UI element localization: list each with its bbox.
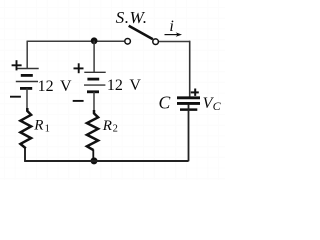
wire bottom horizontal (24, 160, 188, 162)
battery B2 plate short thick (87, 78, 99, 81)
svg-text:C: C (213, 99, 222, 113)
label - of B2 (73, 100, 84, 102)
wire battery B1 to R1 (26, 88, 28, 111)
svg-text:12: 12 (38, 78, 54, 95)
capacitor C top plate (177, 96, 200, 99)
battery B1 plate short thick 2 (20, 87, 32, 90)
wire R2 to bottom node (92, 150, 94, 161)
svg-text:1: 1 (45, 123, 50, 134)
battery B2 12V plate long (84, 71, 105, 73)
wire left vertical (top) (26, 41, 28, 69)
node junction dot top (91, 37, 98, 44)
svg-text:V: V (60, 78, 72, 95)
resistor R2 zigzag (87, 110, 98, 150)
wire right vertical (top) (189, 41, 191, 97)
wire capacitor to bottom (188, 105, 190, 162)
svg-text:C: C (159, 92, 171, 112)
wire middle vertical (top) (93, 41, 95, 72)
switch S.W. right terminal (153, 39, 159, 45)
label + of B1 (12, 60, 22, 70)
svg-text:R: R (102, 118, 112, 134)
svg-text:V: V (129, 77, 141, 94)
faint grid (0, 0, 225, 180)
node junction dot bottom (91, 157, 98, 164)
svg-text:12: 12 (107, 77, 123, 94)
label + of C (191, 89, 199, 96)
label + of B2 (74, 63, 84, 73)
battery B2 plate long 2 (84, 84, 105, 86)
battery B1 plate short thick (21, 74, 33, 77)
svg-text:2: 2 (113, 124, 118, 135)
switch S.W. left terminal (125, 39, 131, 45)
wire top-right horizontal (159, 41, 190, 43)
capacitor C bottom plate (177, 102, 200, 105)
label - of C (180, 108, 197, 111)
label - of B1 (10, 96, 21, 98)
resistor R1 zigzag (20, 108, 31, 148)
svg-text:i: i (169, 18, 173, 35)
svg-text:R: R (33, 117, 43, 133)
battery B2 plate short thick 2 (87, 90, 99, 93)
battery B1 plate long 2 (16, 81, 38, 83)
wire battery B2 to R2 (93, 92, 95, 114)
wire R1 to bottom (24, 148, 26, 161)
switch S.W. blade (129, 26, 153, 40)
current arrow (165, 34, 180, 36)
svg-text:S.W.: S.W. (116, 8, 148, 27)
wire top-left horizontal (27, 40, 124, 42)
battery B1 12V plate long (17, 68, 39, 70)
